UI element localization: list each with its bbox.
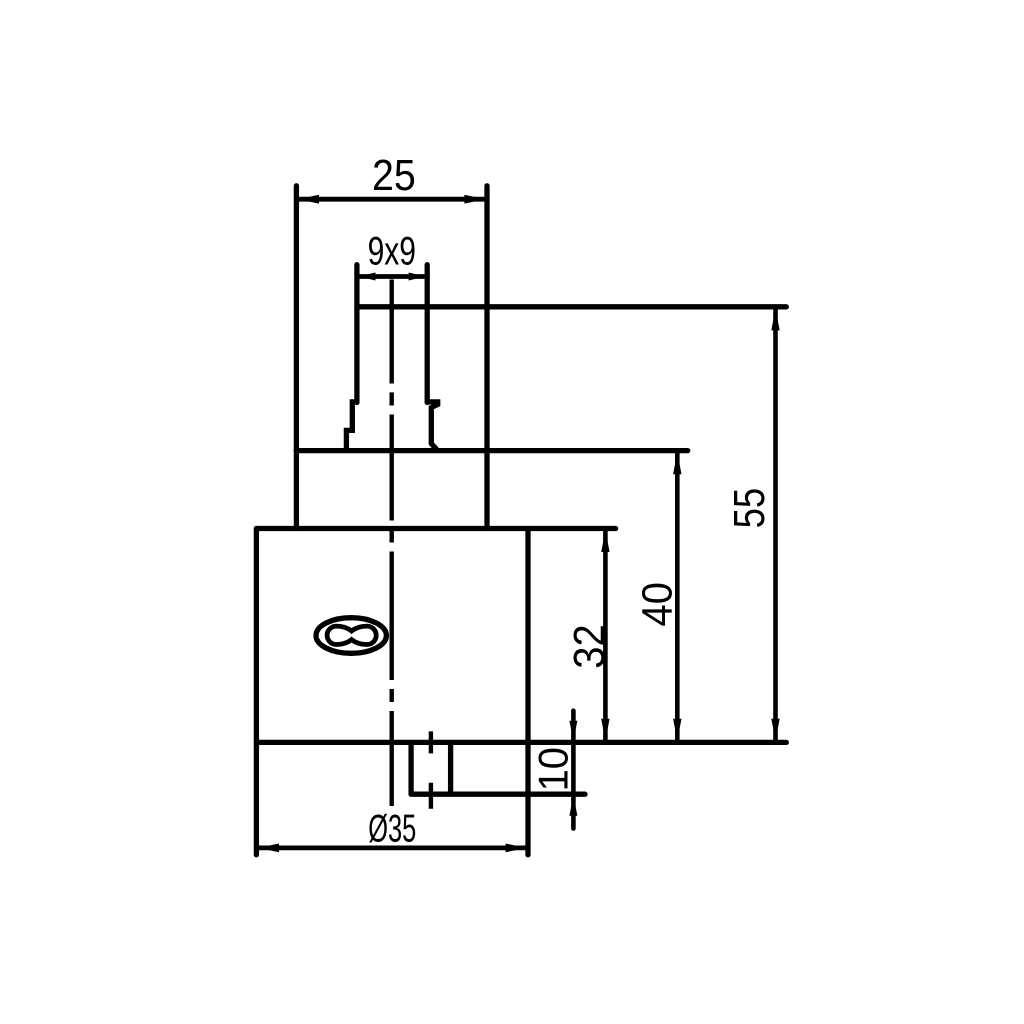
svg-text:Ø35: Ø35	[368, 806, 416, 850]
body left side (Ø35 extension)	[254, 529, 259, 855]
dimension 32 top arrow	[601, 530, 609, 552]
dimension 25 right arrow	[464, 195, 485, 204]
logo outer ellipse	[316, 618, 386, 654]
svg-text:40: 40	[632, 582, 681, 626]
stub right side	[448, 742, 453, 794]
stem left side	[354, 265, 359, 403]
dimension Ø35 right arrow	[506, 844, 527, 853]
dimension 55 bottom arrow	[771, 719, 779, 741]
dimension 25 line	[296, 197, 487, 202]
dimension 55 top arrow	[771, 308, 779, 330]
svg-text:25: 25	[372, 150, 416, 199]
stub bottom line (10 extension)	[411, 792, 585, 797]
stub center line	[429, 731, 433, 808]
logo inner peanut	[327, 626, 376, 644]
svg-text:9x9: 9x9	[368, 230, 416, 274]
stem right side	[425, 265, 430, 403]
dimension 55 line	[773, 307, 778, 743]
stem top line (55 extension)	[357, 304, 786, 309]
flange top line (40 extension)	[296, 448, 688, 453]
dimension 10 line	[571, 711, 576, 829]
dimension 25 left arrow	[298, 195, 319, 204]
dimension 40 bottom arrow	[673, 719, 681, 741]
dimension 9x9 left arrow	[359, 273, 376, 281]
stem right steps	[427, 402, 438, 451]
dimension 40 line	[675, 451, 680, 743]
stem left steps	[346, 402, 357, 451]
dimension 32 line	[603, 528, 608, 742]
body bottom line (55 extension)	[256, 740, 786, 745]
dimension Ø35 line	[256, 846, 528, 851]
flange left side (25 extension)	[294, 186, 299, 529]
dimension 9x9 right arrow	[409, 273, 426, 281]
dimension 10 lower arrow (up)	[569, 796, 577, 816]
main center line	[390, 280, 394, 807]
body right side (Ø35 extension)	[525, 529, 530, 855]
stub left side	[408, 742, 413, 794]
svg-text:55: 55	[725, 488, 774, 529]
svg-text:32: 32	[564, 624, 613, 668]
body top line (32 extension)	[256, 526, 615, 531]
dimension 32 bottom arrow	[601, 719, 609, 741]
svg-text:10: 10	[530, 747, 577, 791]
dimension Ø35 left arrow	[258, 844, 279, 853]
flange right side (25 extension)	[484, 186, 489, 529]
dimension 10 upper arrow (down)	[569, 721, 577, 741]
dimension 40 top arrow	[673, 452, 681, 474]
dimension 9x9 line	[357, 274, 427, 279]
